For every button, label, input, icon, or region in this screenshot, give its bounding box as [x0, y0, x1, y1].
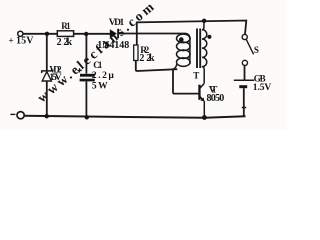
- svg-text:15V: 15V: [49, 73, 61, 83]
- svg-text:C1: C1: [93, 60, 103, 70]
- svg-text:2: 2: [139, 53, 144, 64]
- svg-text:S: S: [254, 45, 259, 55]
- svg-text:1N4148: 1N4148: [97, 40, 129, 51]
- svg-text:8050: 8050: [207, 93, 225, 104]
- svg-text:5W: 5W: [92, 81, 108, 91]
- svg-text:15V: 15V: [16, 36, 34, 47]
- svg-text:2.2µ: 2.2µ: [92, 71, 115, 81]
- svg-text:T: T: [193, 70, 199, 80]
- svg-text:1.5V: 1.5V: [253, 83, 272, 93]
- svg-text:VD1: VD1: [109, 18, 125, 28]
- svg-text:2k: 2k: [146, 53, 155, 64]
- svg-text:+: +: [9, 35, 14, 45]
- svg-text:R1: R1: [61, 21, 71, 31]
- svg-text:2k: 2k: [63, 37, 72, 48]
- svg-text:2: 2: [57, 37, 62, 48]
